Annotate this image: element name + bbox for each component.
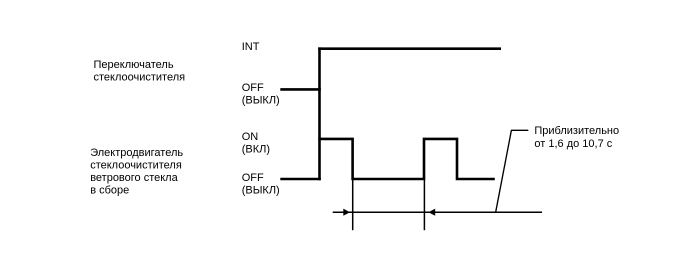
- svg-text:стеклоочистителя: стеклоочистителя: [90, 160, 182, 172]
- arrowhead right (pointing left): [428, 209, 435, 216]
- svg-text:(ВКЛ): (ВКЛ): [242, 143, 270, 155]
- label: wiper motor description: [90, 147, 183, 196]
- wire: motor OFF lead-in segment: [280, 178, 321, 181]
- extension line at second pulse rising edge: [423, 178, 425, 230]
- svg-text:ветрового стекла: ветрового стекла: [90, 172, 178, 184]
- svg-text:стеклоочистителя: стеклоочистителя: [94, 72, 186, 84]
- svg-text:от 1,6 до 10,7 с: от 1,6 до 10,7 с: [534, 138, 612, 150]
- svg-text:Электродвигатель: Электродвигатель: [90, 147, 183, 159]
- svg-text:(ВЫКЛ): (ВЫКЛ): [242, 184, 280, 196]
- svg-text:Приблизительно: Приблизительно: [534, 125, 619, 137]
- dimension line: [333, 211, 542, 213]
- svg-text:Переключатель: Переключатель: [94, 59, 174, 71]
- svg-text:OFF: OFF: [242, 172, 264, 184]
- svg-text:(ВЫКЛ): (ВЫКЛ): [242, 94, 280, 106]
- svg-text:ON: ON: [242, 131, 259, 143]
- annotation: approximate interval text: [534, 125, 619, 150]
- wire: switch OFF level segment: [280, 88, 321, 91]
- arrowhead left (pointing right): [343, 209, 350, 216]
- extension line at first pulse falling edge: [352, 178, 354, 230]
- node OFF level label (switch): [242, 82, 280, 107]
- svg-text:OFF: OFF: [242, 82, 264, 94]
- leader line to annotation: [496, 130, 529, 212]
- wire: switch INT level segment: [318, 47, 501, 50]
- svg-text:в сборе: в сборе: [90, 184, 129, 196]
- svg-text:INT: INT: [242, 41, 260, 53]
- label: wiper switch description: [94, 59, 186, 83]
- node ON level label (motor): [242, 131, 270, 155]
- wire: switch step edge (vertical from INT level down to motor OFF level): [318, 47, 321, 180]
- wire: motor pulse waveform: [318, 139, 495, 179]
- node OFF level label (motor): [242, 172, 280, 197]
